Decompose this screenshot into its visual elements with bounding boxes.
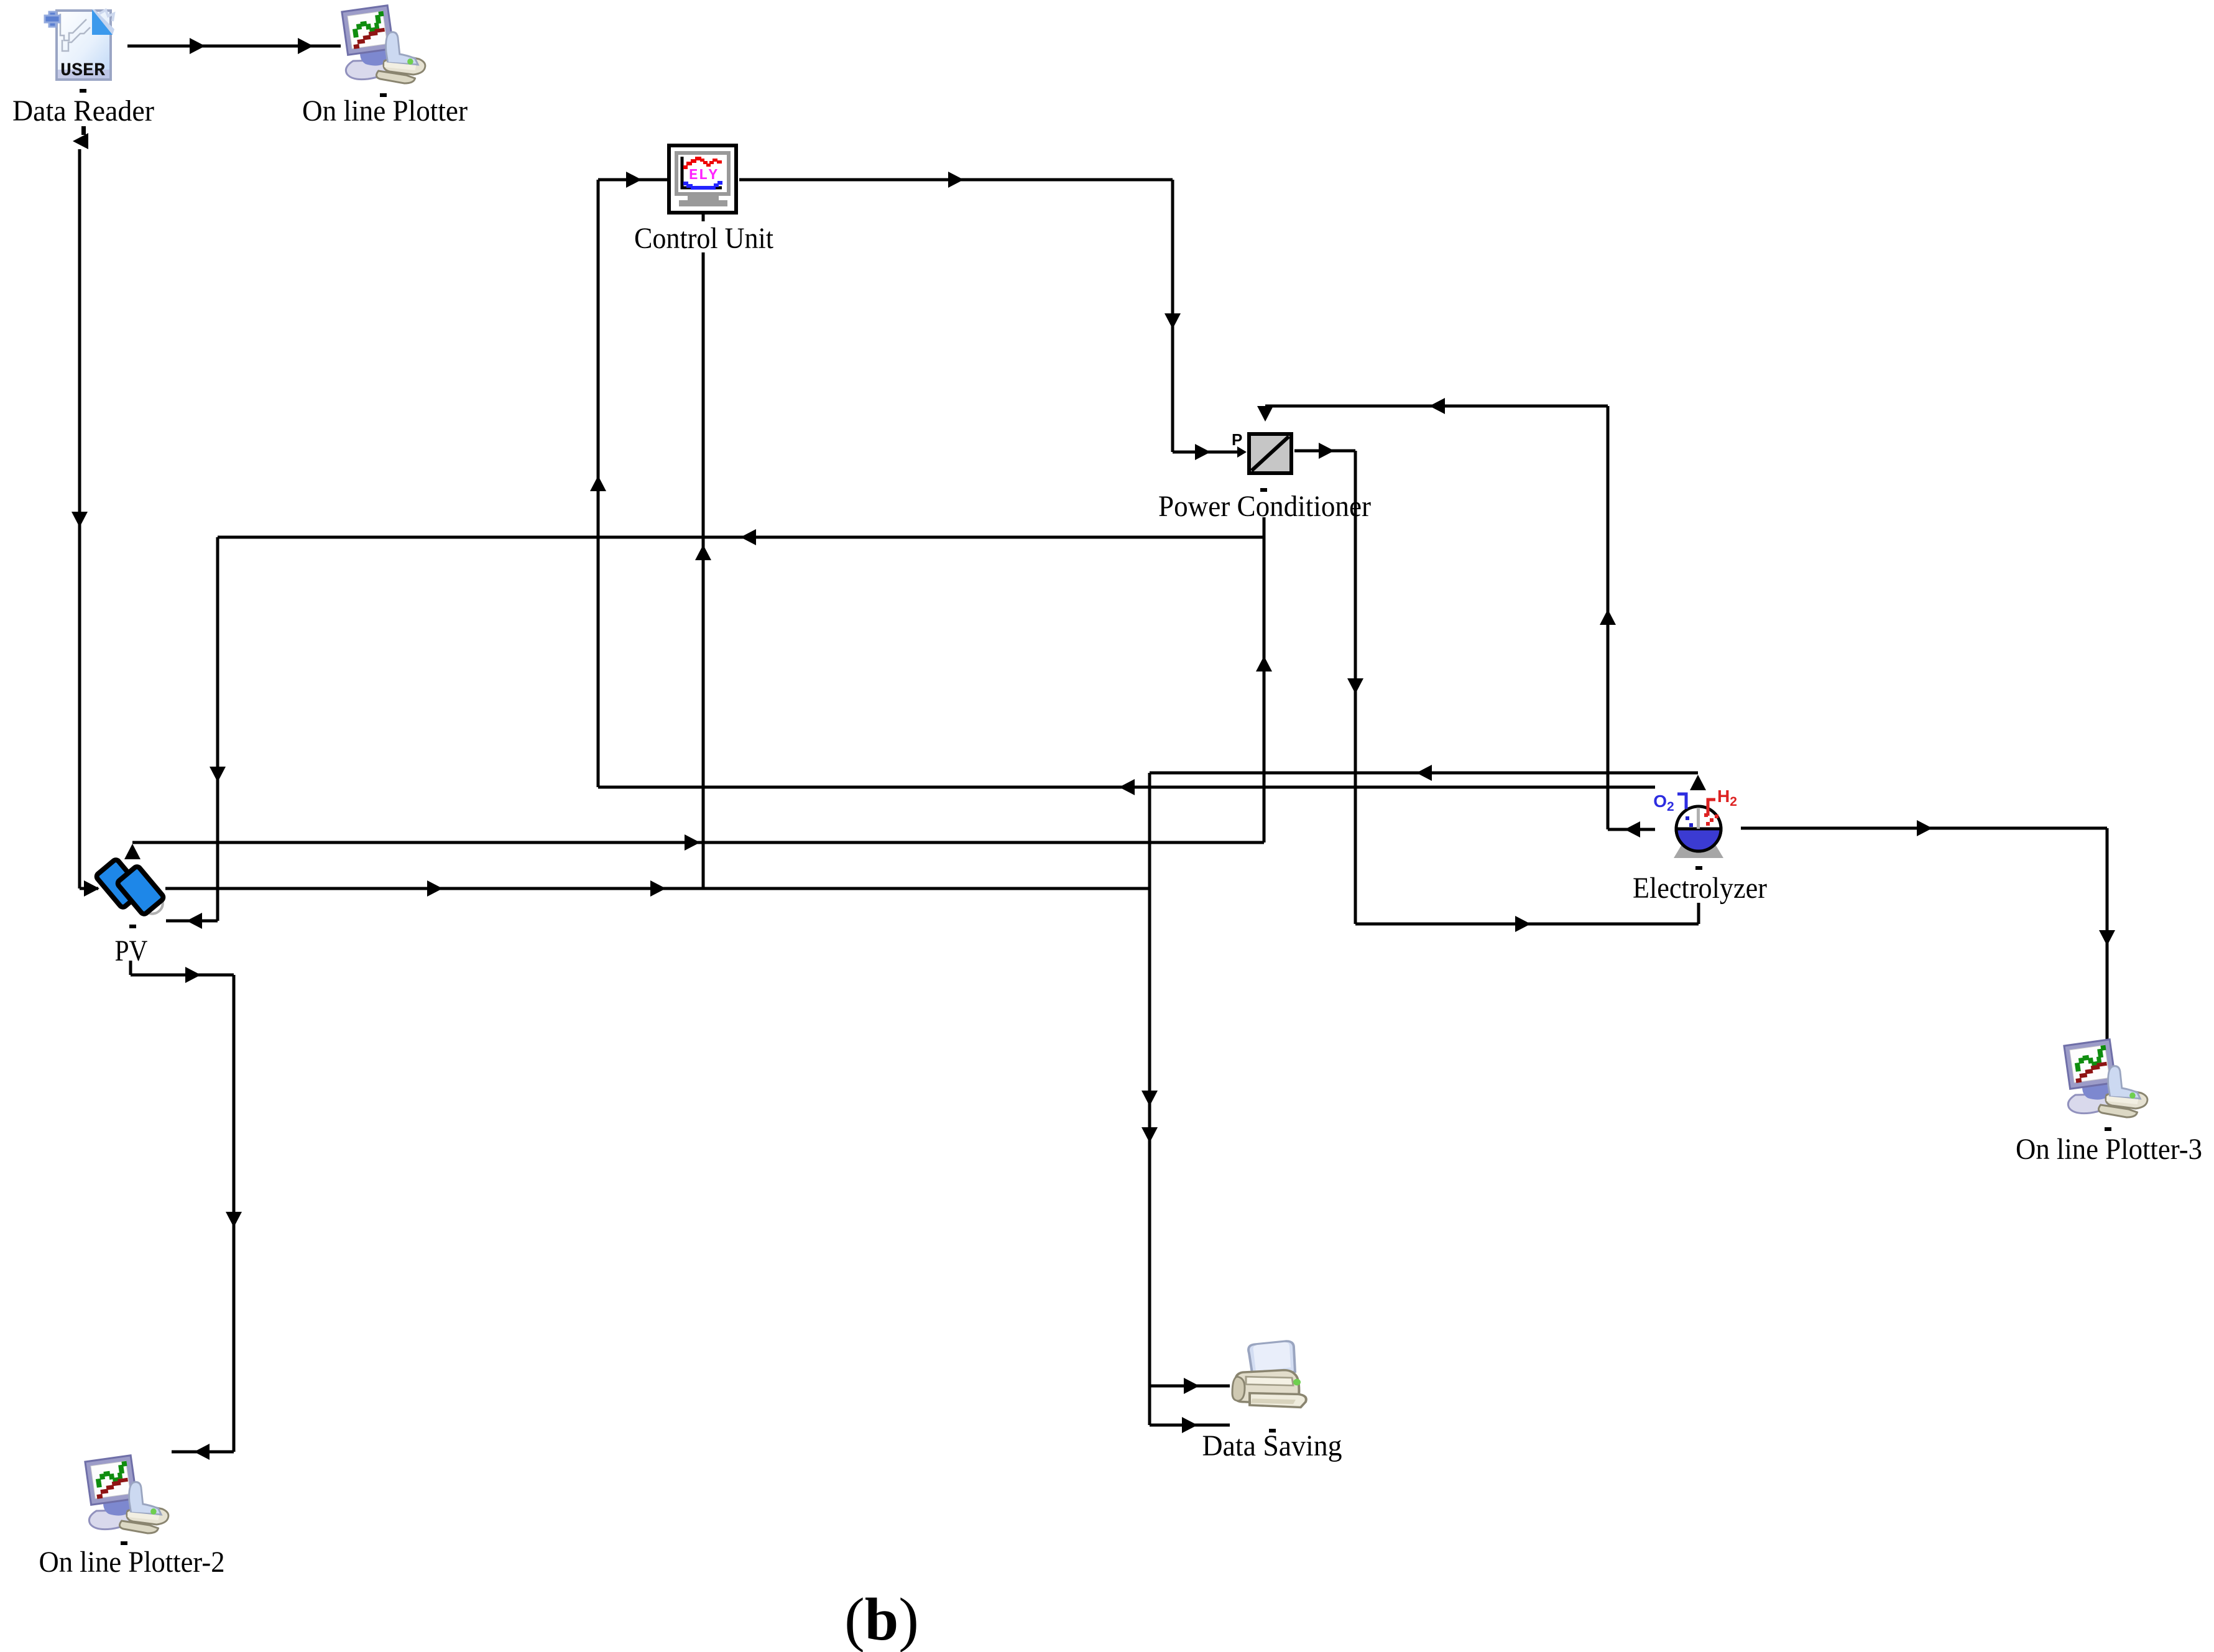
PV icon (95, 859, 164, 915)
wire Electrolyzer to Control Unit input (597, 180, 600, 787)
svg-text:ELY: ELY (689, 167, 718, 184)
svg-text:Control Unit: Control Unit (634, 222, 774, 255)
On line Plotter-2 icon (85, 1456, 168, 1533)
wire Control Unit to Power Conditioner (739, 178, 1173, 182)
wire Data Reader to On line Plotter (127, 45, 341, 48)
Control Unit icon (669, 145, 736, 213)
svg-text:On line Plotter-3: On line Plotter-3 (2016, 1133, 2202, 1166)
wire Power Conditioner to PV right input (218, 536, 1264, 539)
wire PV right output to Control Unit / Data Saving (165, 887, 1150, 890)
wire Electrolyzer feedback to Power Conditioner top (1265, 405, 1608, 408)
H2 label (1708, 787, 1737, 816)
svg-text:H2: H2 (1717, 787, 1737, 809)
svg-text:Data Reader: Data Reader (12, 95, 154, 127)
svg-text:(b): (b) (844, 1586, 919, 1652)
svg-text:USER: USER (60, 60, 105, 81)
Electrolyzer icon (1674, 806, 1723, 858)
svg-text:O2: O2 (1653, 791, 1674, 814)
wire Control Unit bottom vertical (702, 252, 705, 888)
wire Electrolyzer to Data Saving (1150, 772, 1698, 775)
svg-text:PV: PV (115, 934, 148, 967)
wire Electrolyzer to On line Plotter-3 (1741, 827, 2107, 830)
svg-text:Data Saving: Data Saving (1202, 1429, 1342, 1462)
svg-text:On line Plotter: On line Plotter (302, 95, 468, 127)
Data Saving icon (printer) (1232, 1341, 1306, 1407)
wire Power Conditioner output to Electrolyzer bottom (1294, 450, 1355, 453)
wire PV top output to Power Conditioner (long horizontal) (132, 841, 1264, 844)
On line Plotter-3 icon (2064, 1040, 2147, 1117)
wire PV to On line Plotter-2 (129, 961, 132, 975)
wire Data Reader to PV (vertical left) (78, 149, 81, 888)
svg-text:On line Plotter-2: On line Plotter-2 (39, 1546, 225, 1579)
svg-text:Electrolyzer: Electrolyzer (1633, 872, 1767, 905)
O2 label (1653, 791, 1686, 814)
Power Conditioner icon (1249, 434, 1291, 473)
svg-text:P: P (1232, 430, 1242, 449)
Data Reader icon (45, 9, 114, 81)
svg-text:Power Conditioner: Power Conditioner (1158, 490, 1371, 523)
